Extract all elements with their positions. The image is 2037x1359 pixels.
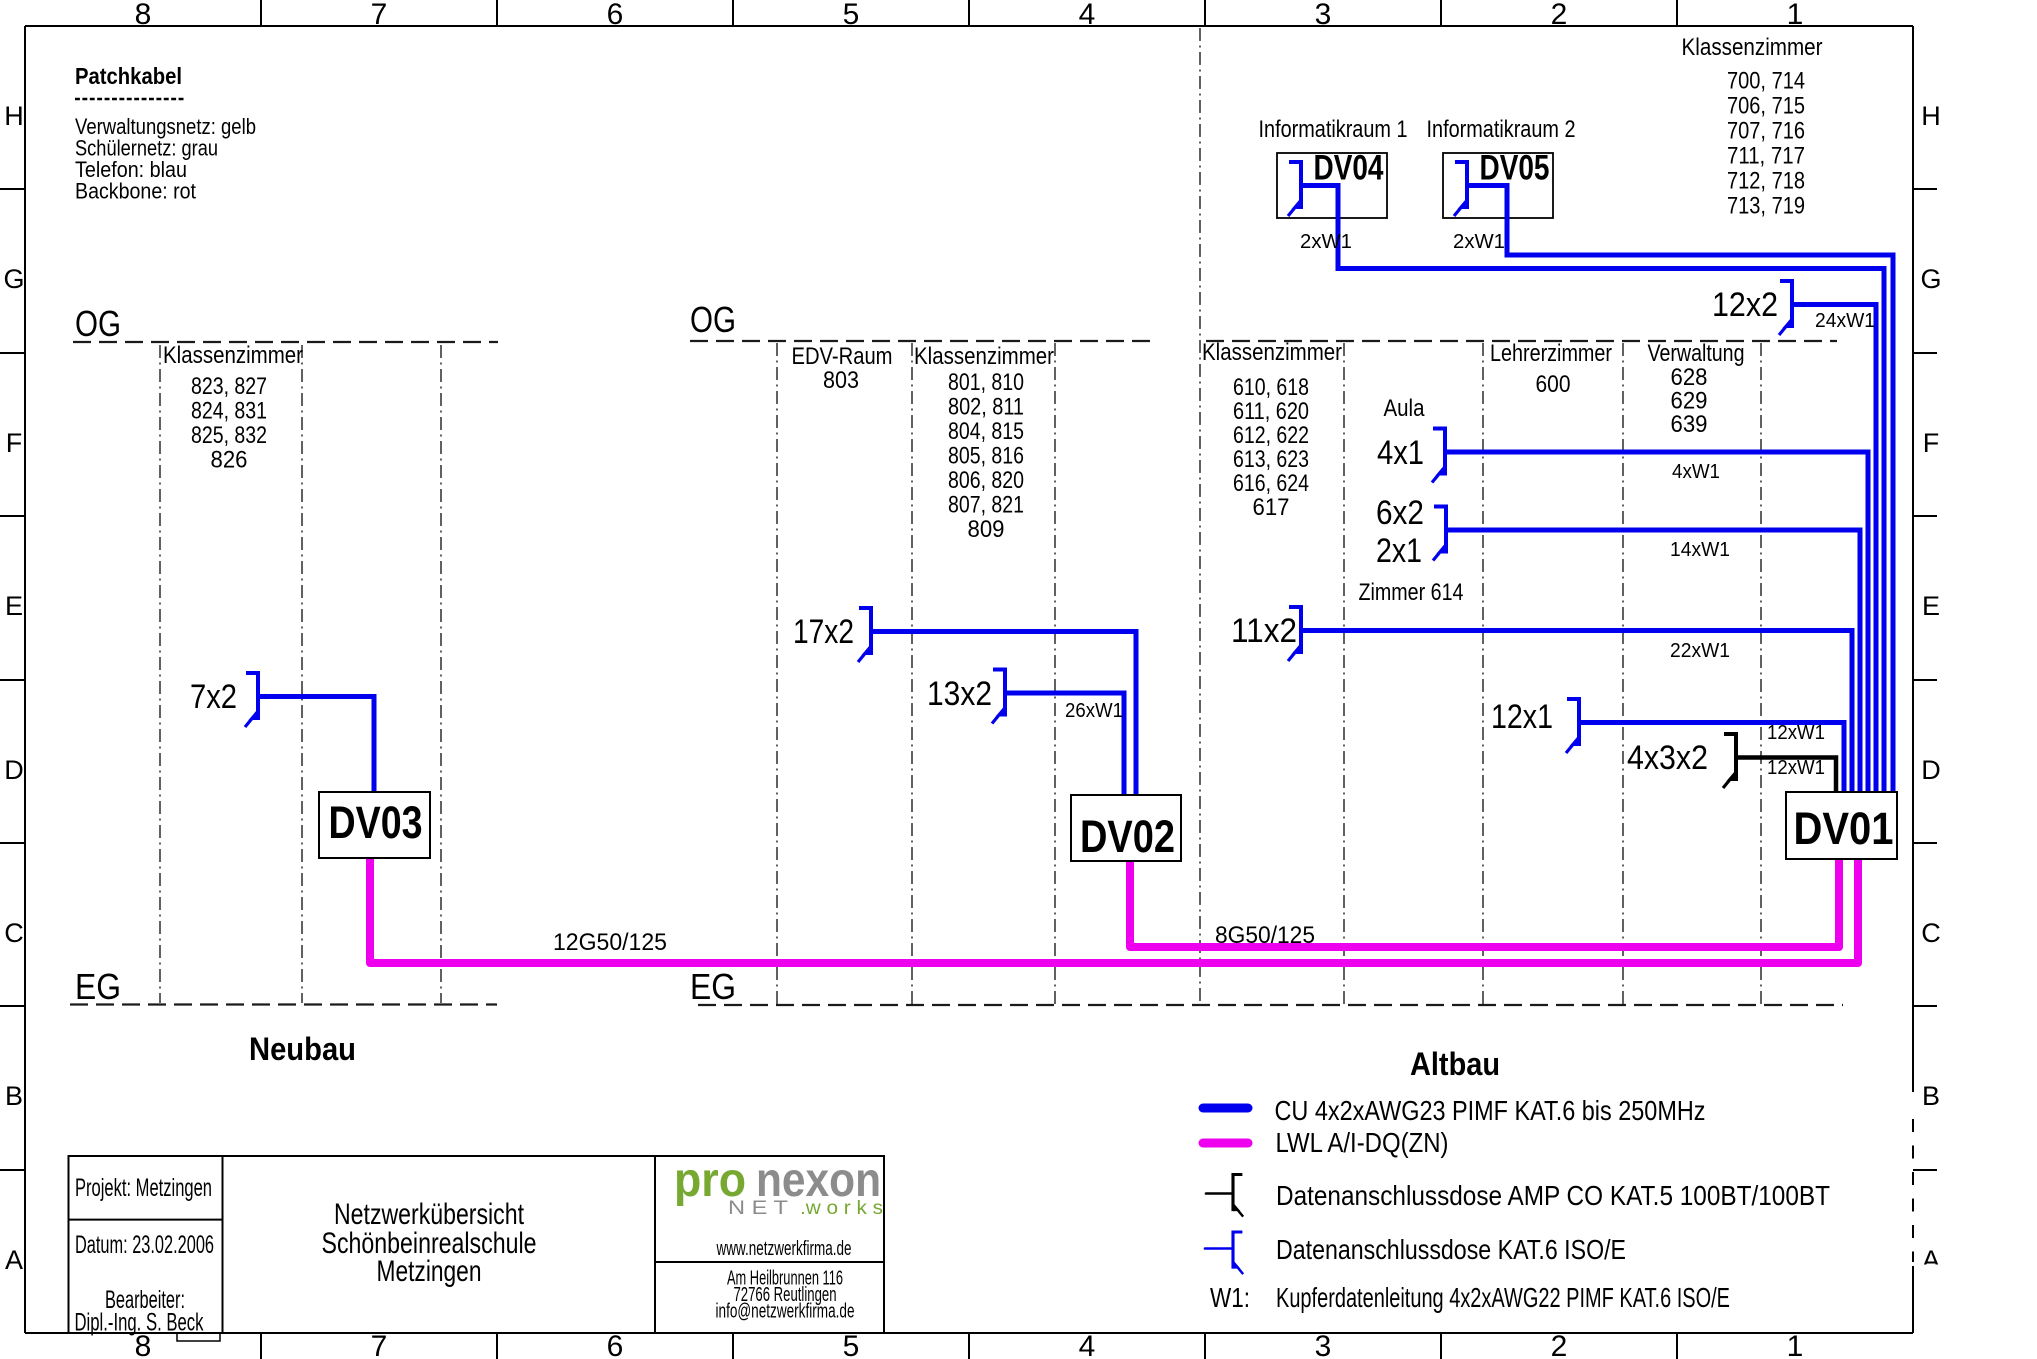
box DV05 [1443, 153, 1553, 218]
svg-text:H: H [1921, 101, 1941, 131]
room divider Neubau x302 [301, 345, 303, 1003]
svg-text:2xW1: 2xW1 [1300, 230, 1352, 253]
svg-text:12xW1: 12xW1 [1767, 756, 1825, 779]
svg-text:OG: OG [75, 303, 121, 344]
svg-text:Backbone: rot: Backbone: rot [75, 179, 196, 204]
LWL DV02 to DV01 8G50/125 [1130, 858, 1839, 947]
svg-text:824, 831: 824, 831 [191, 398, 267, 425]
svg-text:14xW1: 14xW1 [1670, 538, 1730, 561]
left ruler ticks [0, 189, 25, 1170]
svg-text:www.netzwerkfirma.de: www.netzwerkfirma.de [716, 1238, 852, 1260]
svg-text:826: 826 [211, 447, 248, 474]
svg-text:W1:: W1: [1210, 1282, 1250, 1313]
svg-text:5: 5 [843, 1330, 860, 1359]
svg-text:Kupferdatenleitung 4x2xAWG22 P: Kupferdatenleitung 4x2xAWG22 PIMF KAT.6 … [1276, 1282, 1730, 1313]
right ruler ticks [1913, 189, 1937, 1170]
svg-text:24xW1: 24xW1 [1815, 309, 1875, 332]
svg-text:806, 820: 806, 820 [948, 467, 1024, 494]
box DV03 [319, 792, 430, 858]
svg-text:E: E [1922, 591, 1940, 621]
svg-text:6x2: 6x2 [1376, 494, 1424, 532]
svg-text:G: G [3, 264, 24, 294]
outlet symbol in DV04 [1288, 162, 1302, 216]
svg-text:Datenanschlussdose AMP CO KAT.: Datenanschlussdose AMP CO KAT.5 100BT/10… [1276, 1180, 1830, 1211]
svg-text:22xW1: 22xW1 [1670, 639, 1730, 662]
svg-text:8: 8 [135, 0, 152, 31]
svg-text:7x2: 7x2 [190, 678, 237, 716]
wire 12x2 to DV01 [1792, 305, 1876, 794]
wire 12x1 to DV01 [1579, 723, 1844, 794]
room divider Altbau x1623 [1622, 343, 1624, 1004]
svg-text:Projekt: Metzingen: Projekt: Metzingen [75, 1174, 212, 1202]
svg-text:825, 832: 825, 832 [191, 422, 267, 449]
svg-text:639: 639 [1671, 411, 1708, 438]
svg-text:4x1: 4x1 [1377, 434, 1424, 472]
svg-text:Informatikraum 2: Informatikraum 2 [1427, 116, 1576, 143]
wire 17x2 to DV02 [871, 632, 1136, 797]
fold mark bottom [177, 1333, 220, 1341]
svg-text:600: 600 [1536, 371, 1571, 398]
svg-text:B: B [1922, 1081, 1940, 1111]
room divider Mittelbau x777 [776, 343, 778, 1004]
OG dashed line Altbau [1206, 340, 1837, 342]
svg-text:4: 4 [1079, 0, 1096, 31]
svg-text:Patchkabel: Patchkabel [75, 63, 182, 89]
room divider Altbau x1344 [1343, 343, 1345, 1004]
svg-text:DV04: DV04 [1314, 149, 1384, 188]
svg-text:801, 810: 801, 810 [948, 369, 1024, 396]
legend CU line [1203, 1104, 1248, 1113]
svg-text:2: 2 [1551, 0, 1568, 31]
outlet symbol 7x2 [245, 673, 259, 727]
room divider Altbau x1761 [1760, 343, 1762, 1004]
svg-text:13x2: 13x2 [927, 675, 992, 713]
svg-text:700, 714: 700, 714 [1727, 68, 1805, 95]
outlet symbol 4x1 [1432, 429, 1446, 483]
svg-text:B: B [5, 1081, 23, 1111]
svg-text:DV01: DV01 [1794, 803, 1894, 854]
svg-text:611, 620: 611, 620 [1233, 398, 1309, 425]
svg-text:803: 803 [823, 367, 859, 394]
svg-text:2x1: 2x1 [1376, 532, 1422, 570]
svg-text:4xW1: 4xW1 [1672, 460, 1720, 483]
svg-text:809: 809 [968, 516, 1005, 543]
svg-text:805, 816: 805, 816 [948, 443, 1024, 470]
svg-text:Klassenzimmer: Klassenzimmer [163, 342, 303, 369]
svg-text:C: C [1921, 918, 1941, 948]
svg-text:N E T: N E T [728, 1198, 788, 1219]
outlet symbol 13x2 [992, 670, 1006, 724]
svg-text:DV03: DV03 [329, 797, 423, 848]
title block frame [69, 1156, 885, 1333]
svg-text:26xW1: 26xW1 [1065, 699, 1123, 722]
svg-text:F: F [6, 428, 23, 458]
legend blue outlet symbol [1205, 1232, 1243, 1274]
svg-text:12G50/125: 12G50/125 [553, 929, 667, 956]
svg-text:6: 6 [607, 0, 624, 31]
svg-text:F: F [1923, 428, 1940, 458]
svg-text:713, 719: 713, 719 [1727, 193, 1805, 220]
svg-text:3: 3 [1315, 1330, 1332, 1359]
svg-text:7: 7 [371, 1330, 388, 1359]
svg-text:Klassenzimmer: Klassenzimmer [1682, 34, 1823, 61]
wire DV04 to DV01 [1301, 186, 1884, 794]
svg-text:12xW1: 12xW1 [1767, 721, 1825, 744]
svg-text:info@netzwerkfirma.de: info@netzwerkfirma.de [716, 1301, 855, 1323]
svg-text:Informatikraum 1: Informatikraum 1 [1259, 116, 1408, 143]
svg-text:EG: EG [690, 966, 736, 1007]
OG dashed line Neubau [73, 341, 498, 343]
outlet symbol 6x2/2x1 [1433, 507, 1447, 561]
svg-text:H: H [4, 101, 24, 131]
svg-text:Aula: Aula [1384, 395, 1425, 422]
outlet symbol 17x2 [858, 608, 872, 662]
svg-text:4x3x2: 4x3x2 [1627, 739, 1708, 777]
svg-text:Metzingen: Metzingen [377, 1255, 482, 1288]
svg-text:A: A [5, 1245, 23, 1275]
svg-text:EDV-Raum: EDV-Raum [792, 343, 893, 370]
svg-text:Klassenzimmer: Klassenzimmer [914, 343, 1054, 370]
wire 13x2 to DV02 [1005, 693, 1124, 796]
svg-text:5: 5 [843, 0, 860, 31]
svg-text:Neubau: Neubau [249, 1031, 356, 1067]
svg-text:823, 827: 823, 827 [191, 373, 267, 400]
box DV02 [1071, 795, 1181, 861]
wire 11x2 to DV01 [1301, 631, 1852, 794]
wire 6x2/2x1 to DV01 [1446, 530, 1860, 793]
svg-text:EG: EG [75, 966, 121, 1007]
legend LWL line [1203, 1139, 1248, 1148]
svg-text:613, 623: 613, 623 [1233, 446, 1309, 473]
svg-text:C: C [4, 918, 24, 948]
svg-text:12x2: 12x2 [1712, 286, 1778, 324]
svg-text:712, 718: 712, 718 [1727, 168, 1805, 195]
svg-text:D: D [4, 755, 24, 785]
svg-text:Datenanschlussdose KAT.6 ISO/E: Datenanschlussdose KAT.6 ISO/E [1276, 1234, 1626, 1265]
outlet symbol in DV05 [1454, 162, 1468, 216]
dashed separator [75, 98, 184, 101]
outlet symbol 12x1 [1566, 699, 1580, 753]
svg-text:Klassenzimmer: Klassenzimmer [1202, 339, 1342, 366]
EG dashed line Altbau [698, 1004, 1843, 1006]
outlet symbol 12x2 [1779, 281, 1793, 335]
room divider Altbau x1483 [1482, 343, 1484, 1004]
svg-text:LWL A/I-DQ(ZN): LWL A/I-DQ(ZN) [1276, 1127, 1449, 1158]
svg-text:CU 4x2xAWG23 PIMF KAT.6 bis 25: CU 4x2xAWG23 PIMF KAT.6 bis 250MHz [1275, 1095, 1706, 1126]
svg-text:17x2: 17x2 [793, 613, 854, 651]
top ruler ticks [261, 0, 1677, 26]
svg-text:706, 715: 706, 715 [1727, 93, 1805, 120]
svg-text:.w o r k s: .w o r k s [800, 1198, 883, 1219]
svg-text:Datum: 23.02.2006: Datum: 23.02.2006 [75, 1231, 214, 1259]
LWL DV03 to DV01 12G50/125 [370, 858, 1858, 963]
svg-text:DV05: DV05 [1480, 149, 1550, 188]
outlet symbol 4x3x2 black [1723, 734, 1737, 788]
EG dashed line Neubau [70, 1003, 497, 1005]
wire DV05 to DV01 [1467, 186, 1893, 794]
svg-text:802, 811: 802, 811 [948, 394, 1024, 421]
room divider Mittelbau x912 [911, 343, 913, 1004]
svg-text:2: 2 [1551, 1330, 1568, 1359]
svg-text:7: 7 [371, 0, 388, 31]
room divider Altbau x1200 full height [1199, 28, 1201, 1004]
bottom ruler ticks [261, 1333, 1677, 1359]
room divider Neubau x160 [159, 345, 161, 1003]
wire 4x3x2 to DV01 black [1736, 758, 1836, 794]
svg-text:8G50/125: 8G50/125 [1215, 922, 1315, 949]
svg-text:Zimmer 614: Zimmer 614 [1359, 579, 1464, 606]
svg-text:616, 624: 616, 624 [1233, 470, 1309, 497]
svg-text:711, 717: 711, 717 [1727, 143, 1805, 170]
svg-text:1: 1 [1787, 0, 1804, 31]
wire 7x2 to DV03 [258, 697, 374, 794]
svg-text:4: 4 [1079, 1330, 1096, 1359]
box DV01 [1786, 792, 1897, 859]
legend black outlet symbol [1206, 1175, 1243, 1217]
svg-text:610, 618: 610, 618 [1233, 374, 1309, 401]
svg-text:707, 716: 707, 716 [1727, 118, 1805, 145]
svg-text:3: 3 [1315, 0, 1332, 31]
svg-text:6: 6 [607, 1330, 624, 1359]
svg-text:E: E [5, 591, 23, 621]
OG dashed line Mittelbau [690, 340, 1156, 342]
svg-text:11x2: 11x2 [1231, 612, 1297, 650]
svg-text:DV02: DV02 [1080, 811, 1175, 862]
svg-text:OG: OG [690, 299, 736, 340]
svg-text:617: 617 [1253, 494, 1290, 521]
outlet symbol 11x2 [1288, 607, 1302, 661]
svg-text:G: G [1920, 264, 1941, 294]
svg-text:Altbau: Altbau [1410, 1046, 1500, 1082]
room divider Neubau x441 [440, 345, 442, 1003]
svg-text:Lehrerzimmer: Lehrerzimmer [1490, 340, 1612, 367]
svg-text:Verwaltung: Verwaltung [1648, 340, 1745, 367]
box DV04 [1277, 153, 1387, 218]
svg-text:2xW1: 2xW1 [1453, 230, 1505, 253]
svg-text:804, 815: 804, 815 [948, 418, 1024, 445]
svg-text:612, 622: 612, 622 [1233, 422, 1309, 449]
wire 4x1 to DV01 [1445, 452, 1868, 793]
svg-text:D: D [1921, 755, 1941, 785]
svg-text:1: 1 [1787, 1330, 1804, 1359]
svg-text:12x1: 12x1 [1491, 698, 1553, 736]
svg-text:Dipl.-Ing. S. Beck: Dipl.-Ing. S. Beck [75, 1309, 204, 1337]
room divider Mittelbau x1055 [1054, 343, 1056, 1004]
svg-text:807, 821: 807, 821 [948, 492, 1024, 519]
